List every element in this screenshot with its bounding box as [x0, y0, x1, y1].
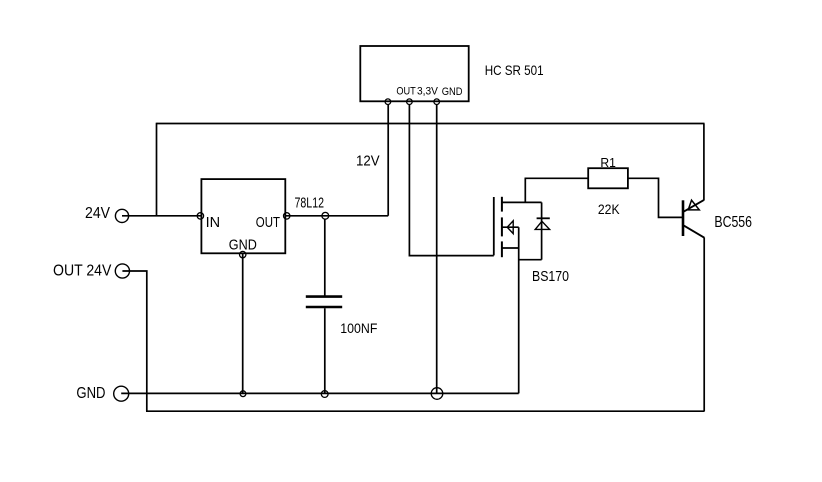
channel bar top segment [501, 197, 503, 212]
body diode cathode bar [537, 217, 550, 219]
wire regulator OUT to 12V riser [285, 215, 388, 217]
capacitor C1 plates [306, 295, 342, 298]
transistor Q2 BC556 PNP [683, 124, 704, 412]
source vertical to ground rail [518, 227, 520, 393]
junction node capacitor on rail [321, 391, 328, 398]
wire regulator GND pin down to ground rail [242, 253, 244, 393]
svg-text:OUT: OUT [396, 86, 416, 98]
svg-text:78L12: 78L12 [295, 195, 325, 212]
body diode triangle [535, 221, 549, 229]
wire ground rail [121, 392, 519, 394]
body arrow lead [502, 226, 519, 228]
svg-text:3,3V: 3,3V [417, 86, 439, 98]
source lead [502, 247, 519, 249]
wire bottom return rail to collector [146, 410, 705, 412]
channel bar middle segment [501, 217, 503, 236]
emitter vertical to top rail [703, 124, 705, 201]
gate plate [493, 197, 495, 255]
emitter diagonal [684, 200, 704, 211]
terminal 24V [115, 209, 128, 222]
drain riser to resistor [524, 178, 526, 202]
channel bar bottom segment [501, 241, 503, 257]
junction node capacitor tap [322, 212, 329, 219]
wire 12V riser to HC SR 501 OUT pin [387, 104, 389, 216]
wire resistor to transistor base [628, 178, 682, 217]
svg-text:OUT: OUT [256, 214, 280, 231]
transistor Q1 BS170 MOSFET [494, 178, 550, 393]
svg-text:R1: R1 [600, 156, 616, 170]
svg-text:IN: IN [206, 214, 221, 231]
wire capacitor top lead [324, 219, 326, 295]
wire HC SR 501 GND pin down to ground rail [436, 104, 438, 393]
regulator U1 78L12 box [201, 179, 285, 253]
junction node HC SR 501 GND on rail [431, 388, 443, 400]
body arrow head [507, 221, 513, 234]
svg-text:GND: GND [442, 86, 463, 98]
body diode vertical [541, 202, 543, 259]
svg-text:BS170: BS170 [532, 269, 569, 285]
wire capacitor bottom lead [324, 308, 326, 393]
module U2 HC SR 501 box [360, 46, 468, 101]
svg-text:GND: GND [76, 385, 105, 402]
pin IN circle [197, 213, 203, 219]
pin OUT circle [385, 99, 391, 105]
svg-text:12V: 12V [356, 152, 380, 169]
drain lead [502, 201, 542, 203]
svg-text:22K: 22K [598, 202, 620, 217]
wire left riser from top rail to 24V input [156, 123, 158, 216]
body diode return wire [519, 259, 542, 261]
emitter arrow head [688, 200, 699, 210]
base bar [682, 200, 685, 236]
svg-text:100NF: 100NF [340, 320, 377, 336]
wire drain to resistor R1 [525, 177, 589, 179]
collector vertical to bottom rail [703, 238, 705, 412]
pin 3,3V circle [407, 99, 413, 105]
wire 3,3V pin to MOSFET gate [409, 104, 493, 255]
collector diagonal [684, 226, 705, 238]
terminal OUT 24V [115, 264, 129, 278]
wire OUT 24V to bottom return rail [122, 271, 146, 411]
svg-text:GND: GND [229, 236, 257, 253]
wire top rail 12V to emitter [157, 123, 705, 125]
pin GND circle [240, 251, 246, 257]
terminal GND [114, 386, 129, 401]
svg-text:HC SR 501: HC SR 501 [485, 62, 544, 78]
svg-text:24V: 24V [85, 205, 110, 222]
pin OUT circle [284, 213, 290, 219]
resistor R1 box [588, 168, 628, 188]
pin GND circle [434, 99, 440, 105]
svg-text:BC556: BC556 [714, 214, 752, 231]
wire 24V input to regulator IN [122, 215, 201, 217]
svg-text:OUT 24V: OUT 24V [53, 262, 112, 279]
junction node regulator GND on rail [240, 391, 246, 397]
